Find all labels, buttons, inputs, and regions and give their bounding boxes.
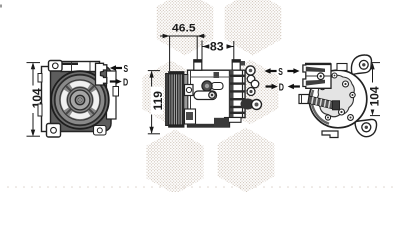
svg-text:S: S <box>278 67 283 78</box>
svg-text:D: D <box>279 82 284 93</box>
svg-text:46.5: 46.5 <box>172 23 196 35</box>
svg-text:D: D <box>123 77 128 88</box>
svg-text:104: 104 <box>367 86 381 106</box>
svg-text:119: 119 <box>151 91 165 111</box>
svg-text:S: S <box>124 64 129 75</box>
svg-text:83: 83 <box>210 40 224 54</box>
